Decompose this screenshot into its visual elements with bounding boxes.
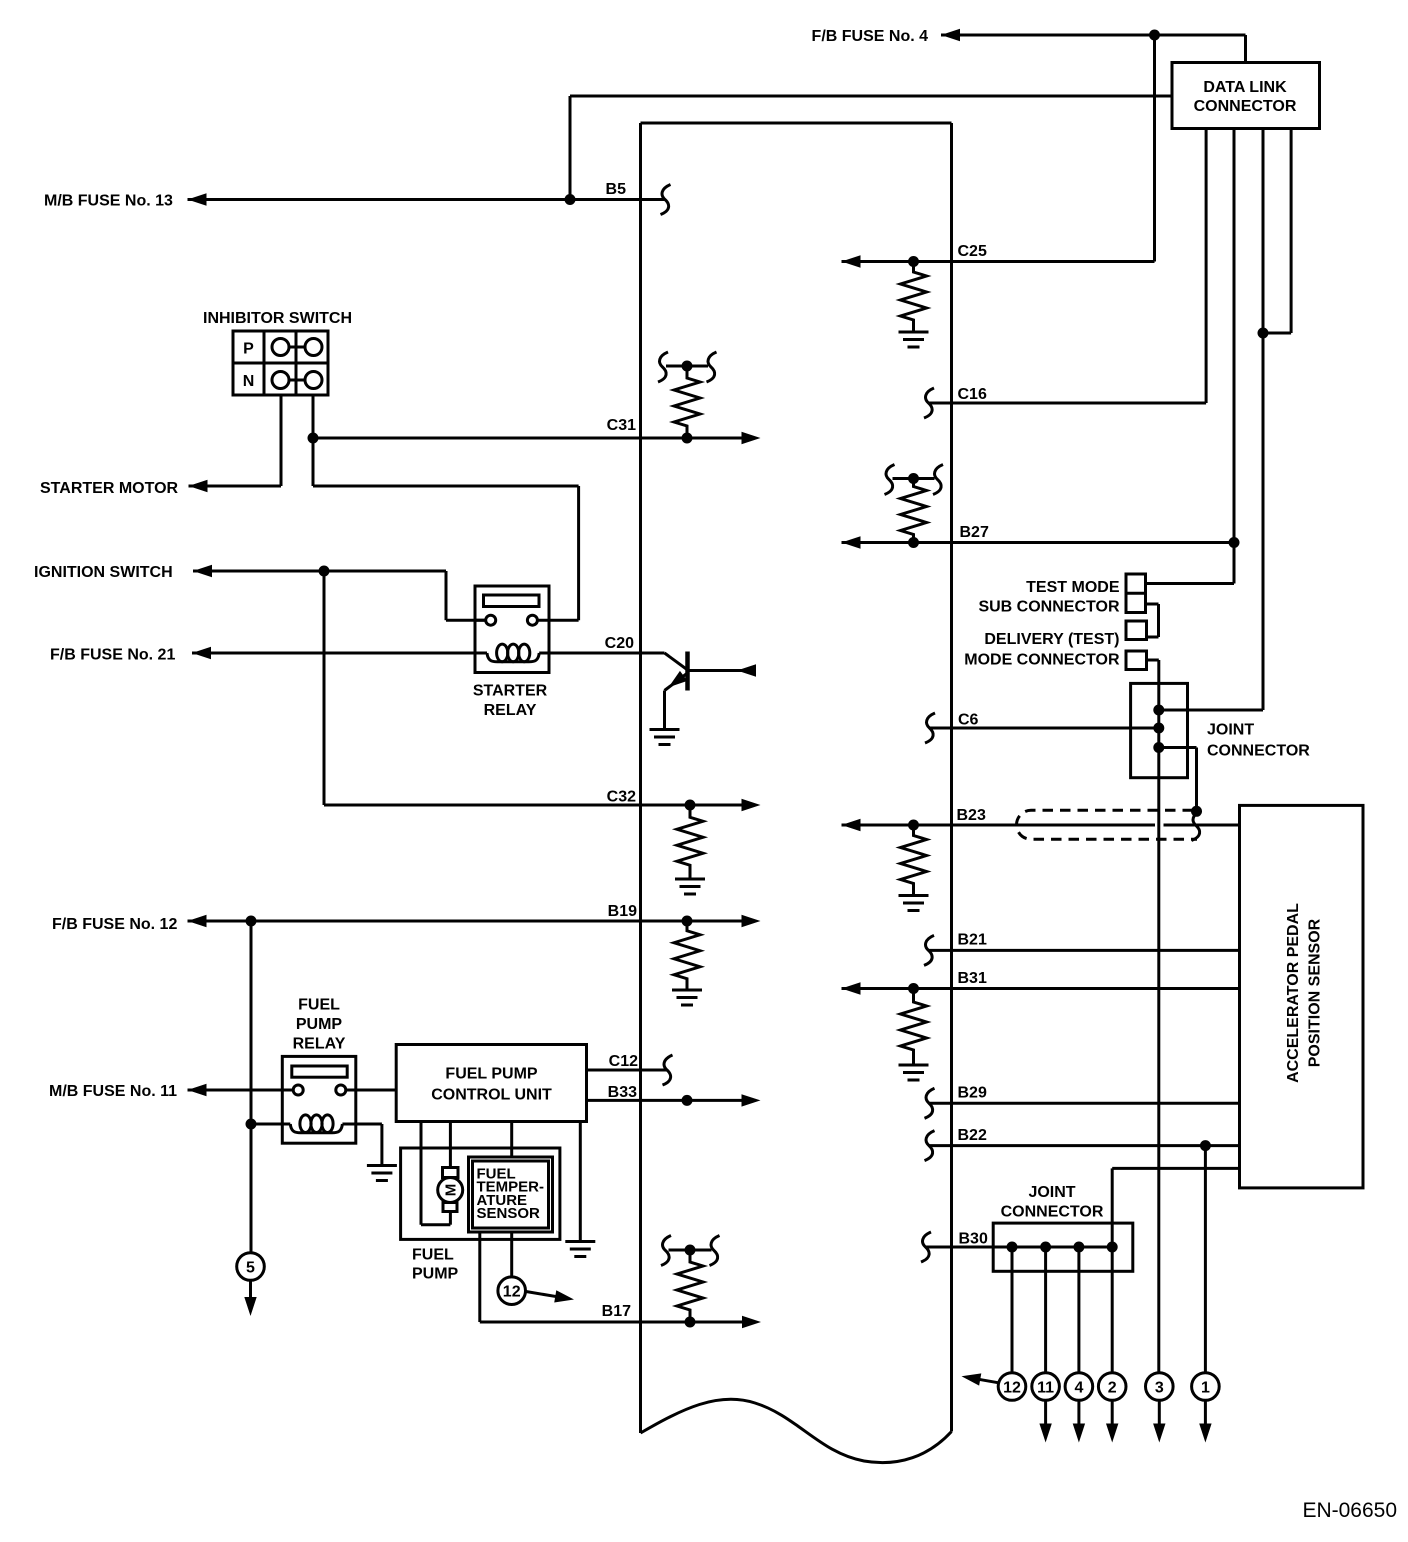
relay K1 coil: [487, 653, 539, 662]
terminal circle 1: [1192, 1373, 1220, 1401]
wire ECM boundary right: [950, 123, 953, 1432]
wire DLC pin 1 to C16: [1205, 129, 1208, 403]
connector break at B21: [924, 935, 934, 965]
svg-text:FUEL PUMP: FUEL PUMP: [445, 1066, 537, 1083]
node junction fuse No.12 branch: [246, 916, 257, 927]
relay K2 armature bar: [292, 1066, 347, 1077]
wire terminal 12 pointer: [526, 1292, 560, 1298]
wire C32: [324, 804, 742, 807]
svg-text:B29: B29: [958, 1085, 987, 1102]
wire joint connector down to terminal 3: [1157, 778, 1160, 1373]
svg-text:11: 11: [1037, 1380, 1054, 1397]
wire M/B fuse No.11 to relay contact: [188, 1089, 294, 1092]
wire delivery pin2 to joint connector: [1147, 659, 1159, 662]
wire B21 to APP sensor: [929, 949, 1240, 952]
wire sensor to terminal 12: [510, 1232, 513, 1277]
node junction C25: [908, 256, 919, 267]
connector test mode sub pin 1: [1126, 574, 1146, 613]
wire below terminal 3: [1158, 1401, 1161, 1425]
svg-text:2: 2: [1108, 1380, 1117, 1397]
svg-text:STARTER: STARTER: [473, 683, 548, 700]
wire F/B FUSE No. 4 feed: [941, 34, 1246, 37]
svg-text:F/B FUSE No. 4: F/B FUSE No. 4: [812, 28, 929, 45]
svg-text:C31: C31: [607, 417, 636, 434]
svg-text:INHIBITOR SWITCH: INHIBITOR SWITCH: [203, 310, 352, 327]
svg-text:PUMP: PUMP: [412, 1266, 459, 1283]
contact circles N row: [272, 372, 289, 389]
node joint lower pin 2: [1040, 1242, 1051, 1253]
wire B31 to APP sensor: [842, 987, 1240, 990]
wire B22 to APP sensor: [930, 1144, 1240, 1147]
svg-text:EN-06650: EN-06650: [1302, 1499, 1397, 1522]
arrow into collector: [737, 664, 756, 676]
ground for R4: [675, 879, 705, 894]
wire fuel pump motor return: [449, 1212, 452, 1225]
wire drop to data link connector: [1244, 35, 1247, 63]
relay K1 STARTER RELAY box: [475, 586, 549, 673]
node junction B31 resistor tap: [908, 983, 919, 994]
arrow B17 into ECM: [742, 1316, 761, 1328]
wire F/B fuse No.21 to starter relay coil: [192, 652, 487, 655]
arrow to F/B FUSE No. 12: [188, 915, 207, 927]
wire joint lower pin2 to terminal 11: [1044, 1247, 1047, 1373]
sensor ACCELERATOR PEDAL POSITION SENSOR box: [1240, 805, 1364, 1188]
svg-text:C25: C25: [958, 243, 987, 260]
wire into left contact: [475, 619, 486, 622]
wire control unit to fuel pump motor: [449, 1122, 452, 1168]
wire to starter motor: [189, 485, 282, 488]
connector break at B5: [661, 185, 671, 215]
connector break at B30: [921, 1232, 931, 1262]
relay K1 contact right: [527, 615, 537, 625]
svg-text:C16: C16: [958, 386, 987, 403]
node joint lower pin 3: [1073, 1242, 1084, 1253]
wire ECM boundary bottom break wave: [641, 1399, 952, 1462]
wire inhibitor pin to starter relay: [312, 395, 315, 486]
wire through joint connector: [1157, 683, 1160, 777]
node junction B5 wire: [565, 194, 576, 205]
connector break left of C31 stub: [658, 352, 668, 382]
arrow terminal 12 pointer to ECM: [960, 1370, 981, 1386]
svg-text:PUMP: PUMP: [296, 1016, 343, 1033]
svg-text:SENSOR: SENSOR: [477, 1205, 541, 1222]
wire B30 to joint connector: [926, 1246, 1112, 1249]
wire B27 to DLC pin2: [842, 541, 1235, 544]
wire B19 to fuse No.12: [188, 920, 743, 923]
wire below terminal 5: [249, 1281, 252, 1298]
arrow below terminal 4: [1073, 1424, 1085, 1443]
arrow to F/B FUSE No. 21: [192, 647, 211, 659]
wire ignition switch feed: [193, 570, 446, 573]
ground for R5: [899, 896, 929, 911]
svg-text:DELIVERY (TEST): DELIVERY (TEST): [984, 631, 1119, 648]
transistor Q1 base bar: [685, 652, 690, 691]
wire DLC pin 2 to test mode sub connector: [1233, 129, 1236, 584]
arrow C32 into ECM: [742, 799, 761, 811]
arrow B19 into ECM: [742, 915, 761, 927]
resistor R4 on C32: [677, 805, 703, 878]
transistor Q1 emitter lead: [665, 673, 688, 691]
arrow below terminal 1: [1199, 1424, 1211, 1443]
wire C31: [313, 437, 742, 440]
terminal circle 3: [1146, 1373, 1174, 1401]
node shield stub C31: [682, 361, 693, 372]
svg-text:TEST MODE: TEST MODE: [1026, 579, 1120, 596]
wire control unit to ground: [579, 1122, 582, 1241]
arrow emitter: [665, 671, 688, 692]
node joint connector pin 1: [1153, 705, 1164, 716]
svg-text:C20: C20: [605, 635, 634, 652]
wire test mode pin2 jog to delivery pin1: [1146, 603, 1159, 606]
node junction B17 resistor tap: [685, 1317, 696, 1328]
terminal circle 5: [237, 1253, 265, 1281]
connector break right of C31 stub: [707, 352, 717, 382]
transistor Q1 collector lead: [688, 669, 754, 672]
wire joint pin3 to B23 shield: [1159, 746, 1197, 749]
terminal circle 12 at fuel pump: [498, 1277, 526, 1305]
wire C25: [842, 260, 1155, 263]
ground for R7: [899, 1065, 929, 1080]
node joint connector pin 3: [1153, 742, 1164, 753]
connector break at B22: [925, 1131, 935, 1161]
connector break right of B27 stub: [933, 465, 943, 495]
connector delivery mode pin 1: [1126, 621, 1147, 640]
svg-text:1: 1: [1201, 1380, 1210, 1397]
relay K1 contact left: [486, 615, 496, 625]
svg-text:F/B FUSE No. 21: F/B FUSE No. 21: [50, 647, 175, 664]
wire fuse branch to relay coil: [251, 1123, 290, 1126]
svg-text:12: 12: [503, 1284, 521, 1301]
arrow to IGNITION SWITCH: [193, 565, 212, 577]
wire relay contact to control unit: [346, 1089, 396, 1092]
arrow B27 off-page: [842, 536, 861, 548]
component FUEL PUMP box: [401, 1148, 560, 1239]
svg-text:RELAY: RELAY: [293, 1036, 346, 1053]
connector break right of B17 stub: [710, 1236, 720, 1266]
svg-text:12: 12: [1003, 1380, 1021, 1397]
wire B23 left segment: [842, 824, 1156, 827]
node junction DLC pin3/pin4: [1258, 328, 1269, 339]
terminal circle 2: [1098, 1373, 1126, 1401]
connector delivery mode pin 2: [1126, 651, 1147, 670]
node junction B27 at DLC pin2 wire: [1229, 537, 1240, 548]
wire junction down to C32: [323, 571, 326, 805]
relay K2 coil: [290, 1124, 342, 1133]
wire joint lower pin1 to terminal 12: [1011, 1247, 1014, 1373]
svg-text:B23: B23: [957, 807, 986, 824]
arrow to F/B FUSE No. 4: [941, 29, 960, 41]
wire B22 junction down to terminal 1: [1204, 1146, 1207, 1373]
svg-text:N: N: [243, 373, 255, 390]
terminal circle 11: [1032, 1373, 1060, 1401]
svg-text:B21: B21: [958, 932, 987, 949]
node shield stub B17: [685, 1245, 696, 1256]
arrow to M/B FUSE No. 13: [188, 193, 207, 205]
wire control unit to fuel temperature sensor: [510, 1122, 513, 1158]
arrow below terminal 5: [244, 1297, 256, 1316]
svg-text:CONNECTOR: CONNECTOR: [1207, 743, 1310, 760]
wire from right contact to inhibitor riser: [537, 619, 578, 622]
wire junction riser to DLC: [569, 96, 572, 200]
arrow B31 off-page: [842, 982, 861, 994]
node junction B27 resistor tap: [908, 537, 919, 548]
connector break at B29: [925, 1088, 935, 1118]
ground for R1: [899, 332, 929, 347]
node joint lower pin 4: [1107, 1242, 1118, 1253]
svg-text:B31: B31: [958, 970, 987, 987]
svg-text:3: 3: [1155, 1380, 1164, 1397]
connector break left of B27 stub: [885, 465, 895, 495]
wire C16 to DLC pin1: [929, 402, 1206, 405]
connector break at C16: [924, 388, 934, 418]
connector JOINT CONNECTOR lower box: [993, 1223, 1133, 1271]
svg-text:B17: B17: [602, 1303, 631, 1320]
node junction C31 resistor tap: [682, 433, 693, 444]
resistor R6 on B19: [674, 921, 700, 989]
relay K2 contact right: [336, 1085, 346, 1095]
arrow below terminal 2: [1106, 1424, 1118, 1443]
relay K2 contact left: [293, 1085, 303, 1095]
wire joint lower pin3 to terminal 4: [1077, 1247, 1080, 1373]
connector test mode sub pin 2: [1126, 592, 1146, 595]
svg-text:M/B FUSE No. 11: M/B FUSE No. 11: [49, 1083, 177, 1100]
wire DLC pin 3 to joint connector: [1262, 129, 1265, 710]
wire B29 to APP sensor: [930, 1102, 1240, 1105]
sensor FUEL TEMPERATURE SENSOR box: [469, 1157, 553, 1232]
arrow terminal 12 pointer: [554, 1290, 575, 1305]
wire below terminal 2: [1111, 1401, 1114, 1425]
wire joint pin1 to DLC pin3: [1159, 709, 1263, 712]
svg-text:B22: B22: [958, 1127, 987, 1144]
node junction B33: [682, 1095, 693, 1106]
svg-text:MODE CONNECTOR: MODE CONNECTOR: [964, 652, 1120, 669]
connector break at C6: [925, 713, 935, 743]
wire control unit to fuel pump negative: [420, 1122, 423, 1225]
module FUEL PUMP CONTROL UNIT box: [396, 1045, 586, 1122]
svg-text:B5: B5: [606, 181, 627, 198]
resistor R7 on B31: [901, 989, 927, 1064]
wire APP sensor to joint connector pin4: [1112, 1167, 1239, 1170]
wire B5 to M/B fuse No.13: [188, 198, 666, 201]
contact circles P row: [272, 339, 289, 356]
relay K1 armature bar: [484, 595, 540, 607]
ground for relay K2 coil: [367, 1166, 397, 1181]
svg-text:F/B FUSE No. 12: F/B FUSE No. 12: [52, 916, 177, 933]
svg-text:B27: B27: [960, 524, 989, 541]
svg-text:C12: C12: [609, 1053, 638, 1070]
svg-text:P: P: [243, 341, 254, 358]
svg-text:IGNITION SWITCH: IGNITION SWITCH: [34, 564, 173, 581]
node shield stub B27: [908, 473, 919, 484]
wire below terminal 11: [1044, 1401, 1047, 1425]
terminal circle 4: [1065, 1373, 1093, 1401]
node junction B19 resistor tap: [682, 916, 693, 927]
wire C6 to joint pin2: [930, 727, 1159, 730]
connector DATA LINK CONNECTOR: [1172, 63, 1320, 129]
svg-text:CONNECTOR: CONNECTOR: [1001, 1204, 1104, 1221]
svg-text:4: 4: [1074, 1380, 1083, 1397]
svg-text:CONTROL UNIT: CONTROL UNIT: [431, 1087, 552, 1104]
arrow below terminal 3: [1153, 1424, 1165, 1443]
svg-text:5: 5: [246, 1260, 255, 1277]
resistor R5 on B23: [901, 825, 927, 894]
arrow B33 into ECM: [742, 1094, 761, 1106]
svg-text:FUEL: FUEL: [412, 1247, 454, 1264]
svg-text:M: M: [443, 1184, 460, 1197]
svg-text:JOINT: JOINT: [1207, 722, 1254, 739]
node junction C31 tap: [308, 433, 319, 444]
svg-text:DATA LINK: DATA LINK: [1203, 79, 1287, 96]
arrow C25 off-page: [842, 255, 861, 267]
wire C25 riser to fuse junction: [1153, 35, 1156, 262]
wire relay coil to ground: [342, 1123, 382, 1126]
wire fuse No.12 branch down to fuel pump relay coil: [250, 921, 253, 1253]
svg-text:POSITION SENSOR: POSITION SENSOR: [1307, 918, 1324, 1067]
svg-text:RELAY: RELAY: [484, 702, 537, 719]
resistor R2 on C31: [674, 366, 700, 438]
wire joint lower pin4 to terminal 2: [1111, 1247, 1114, 1373]
wire DLC pin 4: [1290, 129, 1293, 333]
wire C12: [587, 1069, 668, 1072]
wire below terminal 1: [1204, 1401, 1207, 1425]
connector break at C12: [663, 1055, 673, 1085]
svg-text:B33: B33: [608, 1084, 637, 1101]
transistor Q1 base lead: [665, 653, 690, 671]
svg-text:FUEL: FUEL: [298, 997, 340, 1014]
arrow to STARTER MOTOR: [189, 480, 208, 492]
wire B23 right segment to APP sensor: [1164, 824, 1240, 827]
resistor R1 pull-down on C25: [901, 262, 927, 331]
node junction fuel pump relay coil tap: [246, 1119, 257, 1130]
connector break left of B17 stub: [661, 1236, 671, 1266]
svg-text:STARTER MOTOR: STARTER MOTOR: [40, 480, 179, 497]
node joint connector pin 2: [1153, 723, 1164, 734]
wire terminal 12 pointer to ECM: [967, 1377, 999, 1383]
wire B17: [480, 1321, 742, 1324]
node joint lower pin 1: [1007, 1242, 1018, 1253]
node junction B22 to terminal 1: [1200, 1140, 1211, 1151]
wire C20 from relay coil to transistor: [539, 652, 664, 655]
wire inhibitor to relay contact: [313, 485, 579, 488]
ground for control unit: [565, 1242, 595, 1257]
svg-text:SUB CONNECTOR: SUB CONNECTOR: [978, 599, 1119, 616]
connector break at shield drain: [1192, 811, 1202, 841]
wire ECM boundary top: [641, 122, 952, 125]
ground for Q1 emitter: [650, 730, 680, 745]
node junction C32 resistor tap: [685, 800, 696, 811]
node junction ignition/C32: [319, 566, 330, 577]
svg-text:M/B FUSE No. 13: M/B FUSE No. 13: [44, 193, 173, 210]
resistor R3 on B27: [901, 479, 927, 543]
wire sensor to B17: [478, 1232, 481, 1322]
arrow C31 into ECM: [742, 432, 761, 444]
wire below terminal 4: [1077, 1401, 1080, 1425]
resistor R8 on B17: [677, 1250, 703, 1322]
relay K2 box: [282, 1056, 356, 1143]
svg-text:C6: C6: [958, 712, 979, 729]
motor M fuel pump: [443, 1168, 459, 1178]
wire B33: [587, 1099, 743, 1102]
arrow below terminal 11: [1039, 1424, 1051, 1443]
arrow B23 off-page: [842, 819, 861, 831]
wire ECM boundary left: [639, 123, 642, 1433]
wire test mode pin1 to DLC pin2: [1146, 582, 1235, 585]
svg-text:CONNECTOR: CONNECTOR: [1194, 98, 1297, 115]
ground for R6: [672, 990, 702, 1005]
connector JOINT CONNECTOR upper box: [1131, 683, 1188, 777]
wire inhibitor pin to starter motor: [280, 395, 283, 486]
node junction B23 resistor tap: [908, 820, 919, 831]
terminal circle 12: [998, 1373, 1026, 1401]
svg-text:B30: B30: [959, 1231, 988, 1248]
arrow to M/B FUSE No. 11: [188, 1084, 207, 1096]
svg-text:B19: B19: [608, 903, 637, 920]
svg-text:ACCELERATOR PEDAL: ACCELERATOR PEDAL: [1285, 903, 1302, 1083]
shield around B23 wire (dashed): [1017, 810, 1198, 839]
svg-text:C32: C32: [607, 789, 636, 806]
node junction on fuse No.4 wire: [1149, 30, 1160, 41]
svg-text:JOINT: JOINT: [1028, 1184, 1075, 1201]
node shield drain junction: [1191, 806, 1202, 817]
